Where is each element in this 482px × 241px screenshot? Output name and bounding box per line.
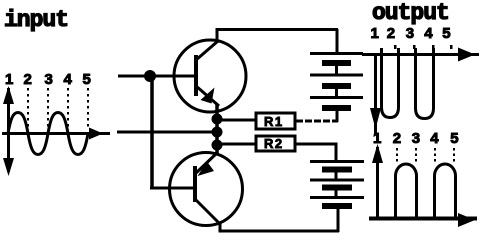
output2 dotted line t3: [415, 148, 417, 163]
wire node to R1: [217, 119, 256, 122]
svg-text:4: 4: [64, 71, 73, 88]
wire R1 to battery B1: [296, 110, 338, 122]
bottom return wire: [219, 230, 340, 233]
wire node to R2: [217, 143, 256, 146]
svg-text:input: input: [4, 7, 68, 33]
output2 dotted line t2: [396, 148, 398, 163]
input dotted line t2: [27, 88, 29, 130]
output2 horizontal axis: [369, 213, 477, 227]
Q1 collector wire up: [216, 28, 219, 43]
node dot bottom: [212, 140, 223, 151]
wire middle output tap: [117, 131, 217, 134]
transistor Q1: [174, 40, 246, 112]
svg-text:3: 3: [406, 25, 414, 42]
input dotted line t4: [67, 88, 69, 130]
output1 tick t5: [450, 45, 453, 49]
svg-text:5: 5: [83, 71, 91, 88]
svg-text:2: 2: [24, 71, 32, 88]
svg-text:4: 4: [430, 130, 439, 147]
resistor R2: [256, 136, 295, 151]
input sine wave: [8, 113, 88, 155]
svg-text:R2: R2: [264, 136, 284, 151]
output2 pulse 2: [435, 164, 456, 218]
svg-text:1: 1: [373, 130, 381, 147]
node dot middle: [212, 127, 223, 138]
output2 dotted line t4: [434, 148, 436, 163]
center emitter wire: [215, 104, 219, 154]
wire to lower base: [150, 187, 197, 190]
svg-text:3: 3: [412, 130, 420, 147]
svg-text:R1: R1: [264, 114, 284, 129]
input dotted line t5: [87, 88, 89, 130]
output1 tick t3: [413, 45, 416, 49]
input graph horizontal axis: [2, 128, 110, 140]
svg-text:2: 2: [393, 130, 401, 147]
wire junction down: [150, 76, 154, 189]
battery B1: [310, 29, 363, 108]
output2 vertical axis: [372, 144, 383, 219]
svg-text:2: 2: [387, 25, 395, 42]
svg-text:3: 3: [45, 71, 53, 88]
output2 dotted line t5: [453, 148, 455, 163]
output2 pulse 1: [396, 164, 417, 218]
node dot top: [212, 114, 223, 125]
junction dot: [144, 70, 156, 82]
svg-text:1: 1: [5, 71, 13, 88]
output1 horizontal axis: [362, 48, 479, 62]
top supply wire: [216, 28, 339, 31]
battery B2: [310, 162, 364, 233]
output1 vertical axis: [370, 54, 381, 135]
output1 tick t4: [432, 45, 435, 49]
output1 tick t2: [394, 45, 397, 49]
svg-text:output: output: [372, 0, 449, 26]
input dotted line t3: [47, 88, 49, 130]
transistor Q2: [170, 152, 243, 226]
input graph vertical axis: [3, 86, 14, 176]
svg-text:5: 5: [442, 25, 450, 42]
wire input to base junction: [118, 75, 198, 78]
output1 pulse 2: [416, 48, 434, 119]
wire R2 to battery B2: [296, 143, 338, 162]
output1 pulse 1: [382, 48, 399, 118]
svg-text:1: 1: [371, 25, 379, 42]
svg-text:4: 4: [424, 25, 433, 42]
Q2 collector wire down: [219, 222, 222, 233]
resistor R1: [256, 113, 295, 129]
svg-text:5: 5: [450, 130, 458, 147]
